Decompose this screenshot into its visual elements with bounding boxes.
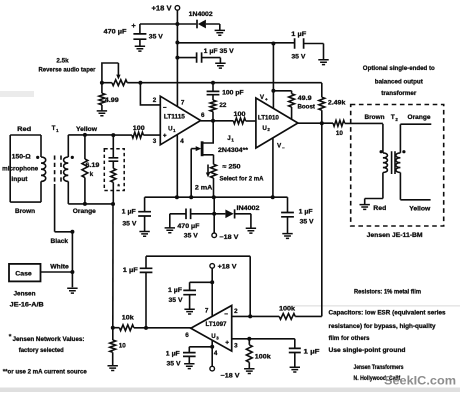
terminal +18V top xyxy=(175,6,180,11)
ground C10 ground xyxy=(184,309,194,314)
node pin3 node xyxy=(247,337,251,341)
wire to R6 xyxy=(273,91,291,94)
wire feedback vertical to servo xyxy=(321,123,323,316)
svg-text:4: 4 xyxy=(214,350,218,357)
svg-text:3: 3 xyxy=(234,342,238,349)
wire R10 to orange rail xyxy=(112,182,114,204)
svg-text:100 pF: 100 pF xyxy=(222,89,244,96)
svg-text:2.5k: 2.5k xyxy=(56,58,69,65)
svg-text:1 µF 35 V: 1 µF 35 V xyxy=(204,48,235,55)
wire in to T2 primary xyxy=(382,124,384,153)
wire U3 pin3 xyxy=(232,338,295,340)
wire C2 to gnd xyxy=(202,58,221,64)
terminal -18V mid xyxy=(212,233,217,238)
ground C11 ground xyxy=(290,367,300,372)
node T1 primary phase dot xyxy=(36,156,39,159)
svg-text:input: input xyxy=(11,176,27,183)
svg-text:35 V: 35 V xyxy=(184,233,199,240)
svg-text:4: 4 xyxy=(180,138,184,145)
wire C9 top loop to pin2 xyxy=(146,256,250,316)
wire D1 to gnd xyxy=(206,24,220,30)
wire rail corner to R7 xyxy=(321,83,323,97)
wire pot left lead xyxy=(102,82,112,84)
wire +18V vertical / LT1115 pin7 feed xyxy=(176,10,178,107)
wire C6 to gnd xyxy=(170,214,186,228)
svg-text:Boost: Boost xyxy=(297,104,315,111)
wire -18V rail xyxy=(145,196,288,198)
wire R4 to U2 input xyxy=(246,120,256,122)
svg-text:35 V: 35 V xyxy=(122,221,137,228)
wire to R14 xyxy=(248,339,250,345)
svg-text:7: 7 xyxy=(205,307,209,314)
svg-text:22: 22 xyxy=(219,102,227,109)
wire D2 to gnd xyxy=(235,214,251,229)
scan smudge bottom band xyxy=(0,388,460,393)
svg-text:Case: Case xyxy=(15,270,32,277)
svg-text:Reverse audio taper: Reverse audio taper xyxy=(39,67,97,74)
wire pin6 to R4 xyxy=(201,120,234,122)
svg-text:LT1097: LT1097 xyxy=(206,321,228,328)
wire to C4 xyxy=(212,83,214,92)
wire to C2 xyxy=(177,57,196,59)
ground R1 ground xyxy=(97,111,107,116)
wire node to R13 xyxy=(250,315,279,317)
wire C7 to gnd xyxy=(287,217,289,234)
svg-text:1 µF: 1 µF xyxy=(304,349,320,356)
svg-text:4.99: 4.99 xyxy=(105,97,120,104)
wire to R11 xyxy=(112,328,114,340)
svg-text:+18 V: +18 V xyxy=(152,6,172,13)
svg-text:35 V: 35 V xyxy=(167,361,182,368)
svg-text:k: k xyxy=(90,171,94,178)
T2 dashed box xyxy=(351,105,444,227)
wire C11 to gnd xyxy=(294,353,296,368)
wire R13 to feedback vertical xyxy=(295,315,322,317)
wire to C1 xyxy=(140,24,178,34)
ground D2 ground xyxy=(246,228,256,233)
node network top node xyxy=(111,133,115,137)
node +18V node B xyxy=(175,41,179,45)
svg-text:1 µF: 1 µF xyxy=(122,209,136,216)
ground D1 ground xyxy=(215,30,225,35)
wire R9 to orange rail xyxy=(84,178,86,204)
svg-text:−: − xyxy=(282,145,285,150)
node T2 primary phase dot xyxy=(380,150,383,153)
wire to D1 xyxy=(177,23,196,25)
svg-text:Brown: Brown xyxy=(15,208,35,215)
svg-text:−: − xyxy=(163,104,167,111)
svg-text:6.19: 6.19 xyxy=(85,162,100,169)
wire R6 to U2 edge xyxy=(291,107,293,120)
wire pin3 to C11 xyxy=(294,339,296,348)
svg-text:35 V: 35 V xyxy=(149,34,164,41)
wire U3 pin2 xyxy=(232,315,251,317)
svg-text:6: 6 xyxy=(185,332,189,339)
terminal +18V servo xyxy=(210,264,215,269)
wire yellow rail xyxy=(68,134,113,136)
wire shield black xyxy=(55,184,73,287)
svg-text:100k: 100k xyxy=(255,353,272,360)
wire T2 secondary bottom / yellow stub xyxy=(400,173,430,200)
wire R8 to T2 xyxy=(345,122,383,124)
wire LT1115 pin2 lead xyxy=(140,83,159,105)
wire C5 to gnd xyxy=(144,216,146,232)
op-amp U3 LT1097 xyxy=(191,306,232,352)
svg-text:Orange: Orange xyxy=(408,114,432,121)
wire rail to C5 xyxy=(144,197,146,211)
svg-text:balanced output: balanced output xyxy=(375,79,424,86)
wire J1 gate lead xyxy=(191,148,196,150)
svg-text:2: 2 xyxy=(153,97,157,104)
svg-text:White: White xyxy=(50,264,69,271)
svg-text:T: T xyxy=(52,125,56,132)
svg-text:Use single-point ground: Use single-point ground xyxy=(329,347,406,354)
svg-text:2: 2 xyxy=(234,308,238,315)
wire to C8 xyxy=(112,135,114,158)
ground C2 ground xyxy=(215,63,225,68)
ground C7 ground xyxy=(282,234,292,239)
svg-text:LT1115: LT1115 xyxy=(164,114,186,121)
svg-text:2N4304**: 2N4304** xyxy=(218,147,249,154)
transformer T1 secondary coil xyxy=(67,135,69,157)
node network bottom node xyxy=(111,202,115,206)
wire R11 to gnd xyxy=(112,352,114,365)
node +18V node A xyxy=(175,22,179,26)
transformer T1 core xyxy=(54,156,56,185)
capacitor C3 1uF 35V xyxy=(295,38,304,48)
svg-text:10: 10 xyxy=(336,130,344,137)
case box xyxy=(9,264,41,282)
wire T2 secondary top / orange stub xyxy=(400,124,431,153)
wire R1 to gnd xyxy=(101,105,103,111)
svg-text:microphone: microphone xyxy=(2,165,39,172)
node white junction xyxy=(70,270,74,274)
svg-text:+: + xyxy=(265,97,268,102)
wire gate to -18V rail xyxy=(190,149,192,198)
ground shield ground xyxy=(67,288,77,293)
svg-text:+: + xyxy=(131,21,136,30)
svg-text:Select for 2 mA: Select for 2 mA xyxy=(220,175,264,182)
ground C5 ground xyxy=(139,232,149,237)
wire C4 to R2 xyxy=(212,95,214,100)
wire R3 to pin3 xyxy=(143,134,160,136)
wire R14 to gnd xyxy=(248,362,250,368)
ground C3 ground xyxy=(318,60,328,65)
svg-text:Yellow: Yellow xyxy=(76,126,97,133)
svg-text:35 V: 35 V xyxy=(300,218,315,225)
terminal -18V servo xyxy=(210,366,215,371)
wire R5 to -18V rail xyxy=(213,178,215,197)
wire R12 to U3 output xyxy=(134,327,191,329)
svg-text:1 µF: 1 µF xyxy=(291,31,306,38)
svg-text:Optional single-ended to: Optional single-ended to xyxy=(363,65,435,72)
resistor R5 250 select xyxy=(211,164,217,178)
wire C12 to gnd xyxy=(188,356,190,363)
ground R11 ground xyxy=(108,366,118,371)
wire to R9 xyxy=(84,135,86,159)
svg-text:**or use 2 mA current source: **or use 2 mA current source xyxy=(3,369,87,376)
svg-text:≈ 250: ≈ 250 xyxy=(223,163,242,170)
op-amp U2 LT1010 xyxy=(256,98,298,148)
svg-text:100: 100 xyxy=(133,125,146,132)
node rail/pin2 tee xyxy=(138,81,142,85)
svg-text:+18 V: +18 V xyxy=(218,264,238,271)
ground C12 ground xyxy=(184,364,194,369)
svg-text:−18 V: −18 V xyxy=(221,373,241,380)
svg-text:SeekIC.com: SeekIC.com xyxy=(384,376,456,388)
node -18V node xyxy=(212,212,216,216)
svg-text:Brown: Brown xyxy=(365,114,385,121)
pin 4 wire xyxy=(176,134,178,197)
wire R2 to pin6 node xyxy=(212,112,214,121)
node source on rail xyxy=(212,195,216,199)
wire R7 to output node xyxy=(321,110,323,123)
svg-text:2.49k: 2.49k xyxy=(328,99,346,106)
wire C8 to R10 xyxy=(112,161,114,168)
svg-text:Jensen Network Values:: Jensen Network Values: xyxy=(13,336,85,343)
wire T2 primary to gnd xyxy=(365,173,383,205)
wire to D2 xyxy=(214,213,225,215)
wire J1 source lead xyxy=(203,155,214,165)
ground C1 ground xyxy=(135,46,145,51)
node pin4 on rail xyxy=(175,195,179,199)
svg-text:resistance) for bypass, high-: resistance) for bypass, high-quality xyxy=(329,323,436,330)
svg-text:JE-16-A/B: JE-16-A/B xyxy=(10,301,45,308)
node boost tee xyxy=(271,89,275,93)
transformer T2 secondary xyxy=(396,153,401,173)
resistor R8 10 xyxy=(333,120,345,126)
wire +18 to U3 pin7 xyxy=(211,268,213,316)
ground C6 ground xyxy=(165,228,175,233)
svg-text:7: 7 xyxy=(181,100,185,107)
svg-text:6: 6 xyxy=(201,112,205,119)
svg-text:LT1010: LT1010 xyxy=(258,114,280,121)
op-amp U1 LT1115 xyxy=(160,96,200,145)
node pin4 bypass tee xyxy=(210,345,214,349)
wire case to shield xyxy=(41,271,73,273)
wire U2 output xyxy=(298,122,333,124)
svg-text:factory selected: factory selected xyxy=(19,347,64,354)
wire pot wiper bridge xyxy=(102,63,119,83)
svg-text:Orange: Orange xyxy=(73,208,97,215)
wire J1 drain lead xyxy=(203,121,213,143)
resistor R12 10k xyxy=(119,325,133,331)
wire to C12 xyxy=(189,347,212,353)
wire node to C9 xyxy=(145,273,147,328)
svg-text:Jensen Transformers: Jensen Transformers xyxy=(354,364,404,371)
svg-text:+: + xyxy=(163,133,167,140)
svg-text:Yellow: Yellow xyxy=(409,205,430,212)
wire -18V drop xyxy=(213,197,215,233)
svg-text:150-Ω: 150-Ω xyxy=(12,153,31,160)
svg-text:35 V: 35 V xyxy=(291,53,306,60)
wire C10 to gnd xyxy=(189,295,191,310)
node servo injection node xyxy=(111,326,115,330)
wire U3 pin4 xyxy=(211,340,213,366)
node U2 V- on rail xyxy=(271,195,275,199)
node pot junction xyxy=(100,81,104,85)
svg-text:2 mA: 2 mA xyxy=(195,184,213,191)
node V+ tee on +18 wire xyxy=(271,42,275,46)
svg-text:1N4002: 1N4002 xyxy=(189,11,214,18)
wire C1 to gnd xyxy=(139,39,141,46)
transformer T2 core xyxy=(392,151,395,174)
transformer T1 primary coil xyxy=(41,157,46,181)
wire yellow rail to R3 xyxy=(113,134,132,136)
svg-text:film for others: film for others xyxy=(329,335,370,342)
svg-text:10: 10 xyxy=(119,343,127,350)
svg-text:100k: 100k xyxy=(279,306,296,313)
node pin6 node xyxy=(211,119,215,123)
svg-text:Black: Black xyxy=(51,238,69,245)
svg-text:1 µF: 1 µF xyxy=(168,287,182,294)
svg-text:+: + xyxy=(225,339,229,346)
svg-text:49.9: 49.9 xyxy=(298,95,313,102)
wire U2 V+ feed xyxy=(272,44,274,109)
node 6.19k bottom node xyxy=(83,202,87,206)
svg-text:Red: Red xyxy=(17,126,31,133)
node 6.19k top node xyxy=(83,133,87,137)
wire orange to servo node xyxy=(112,204,114,328)
wire orange rail xyxy=(68,203,113,205)
wire to C6 xyxy=(191,213,214,215)
svg-text:470 µF: 470 µF xyxy=(104,29,127,36)
node black corner xyxy=(70,230,74,234)
wire to R1 xyxy=(101,83,103,94)
svg-text:Capacitors: low ESR (equivalen: Capacitors: low ESR (equivalent series xyxy=(329,310,446,317)
transformer T1 primary loop xyxy=(10,135,41,202)
wire rail to C7 xyxy=(287,197,289,212)
svg-text:Jensen JE-11-BM: Jensen JE-11-BM xyxy=(367,232,423,239)
svg-text:10k: 10k xyxy=(122,314,135,321)
svg-text:Resistors: 1% metal film: Resistors: 1% metal film xyxy=(354,289,421,296)
node gate on rail xyxy=(189,195,193,199)
svg-text:*: * xyxy=(9,334,12,341)
svg-text:T: T xyxy=(391,114,395,121)
node rail/C4 tee xyxy=(211,81,215,85)
svg-text:100: 100 xyxy=(234,111,247,118)
svg-text:Jensen: Jensen xyxy=(14,290,36,297)
svg-text:35 V: 35 V xyxy=(169,297,184,304)
svg-text:1 µF: 1 µF xyxy=(299,208,313,215)
capacitor C2 1uF 35V xyxy=(197,52,202,62)
svg-text:−: − xyxy=(224,311,228,318)
node T2 secondary phase dot xyxy=(402,150,405,153)
Jensen network dashed box xyxy=(104,149,124,191)
svg-text:470 µF: 470 µF xyxy=(177,223,199,230)
wire feedback rail xyxy=(127,82,322,84)
svg-text:1 µF: 1 µF xyxy=(123,267,138,274)
wire to C3 xyxy=(177,42,294,44)
node servo cap node xyxy=(144,326,148,330)
svg-text:Red: Red xyxy=(373,205,386,212)
node output node xyxy=(320,121,324,125)
node +18V node C xyxy=(175,56,179,60)
ground R14 ground xyxy=(244,369,254,374)
resistor R4 100 xyxy=(233,118,245,124)
2mA current arrow xyxy=(207,165,209,174)
svg-text:transformer: transformer xyxy=(381,90,416,97)
wire node to R12 xyxy=(113,327,120,329)
svg-text:3: 3 xyxy=(153,138,157,145)
svg-text:IN4002: IN4002 xyxy=(237,205,261,212)
wire U2 V- lead xyxy=(272,138,274,198)
node T1 secondary phase dot xyxy=(71,156,74,159)
svg-text:1 µF: 1 µF xyxy=(166,351,180,358)
wire to C10 xyxy=(190,282,213,290)
svg-text:−18 V: −18 V xyxy=(219,234,239,241)
node pin2 servo node xyxy=(248,314,252,318)
wire C3 to gnd xyxy=(304,44,324,60)
ground T2 ground xyxy=(360,205,370,210)
node servo bypass tee xyxy=(210,280,214,284)
